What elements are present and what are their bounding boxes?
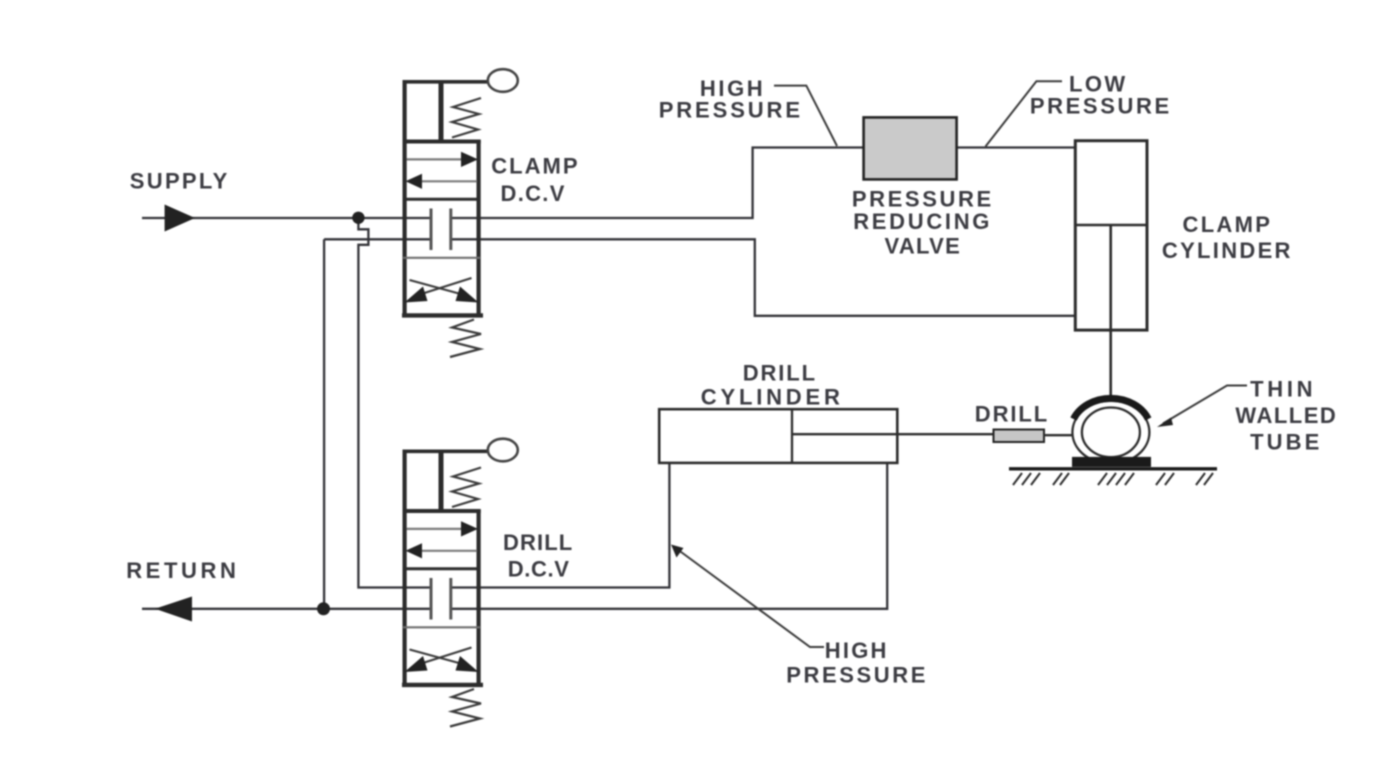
svg-text:CYLINDER: CYLINDER [1162, 238, 1293, 263]
svg-text:PRESSURE: PRESSURE [852, 187, 994, 212]
svg-text:VALVE: VALVE [885, 234, 962, 259]
svg-text:CLAMP: CLAMP [1183, 212, 1273, 237]
svg-text:CYLINDER: CYLINDER [701, 385, 844, 410]
svg-text:TUBE: TUBE [1250, 430, 1322, 455]
svg-text:THIN: THIN [1250, 377, 1316, 402]
svg-text:RETURN: RETURN [126, 558, 239, 583]
svg-text:D.C.V: D.C.V [501, 181, 566, 206]
svg-text:DRILL: DRILL [743, 361, 817, 386]
svg-text:D.C.V: D.C.V [508, 557, 570, 582]
svg-text:HIGH: HIGH [825, 638, 889, 663]
svg-text:PRESSURE: PRESSURE [1030, 94, 1172, 119]
svg-text:PRESSURE: PRESSURE [659, 98, 803, 123]
svg-text:PRESSURE: PRESSURE [786, 663, 928, 688]
svg-text:WALLED: WALLED [1235, 403, 1337, 428]
svg-text:SUPPLY: SUPPLY [130, 169, 230, 194]
svg-text:DRILL: DRILL [503, 530, 573, 555]
svg-text:DRILL: DRILL [975, 402, 1049, 427]
svg-text:CLAMP: CLAMP [491, 154, 579, 179]
svg-text:REDUCING: REDUCING [853, 209, 992, 234]
